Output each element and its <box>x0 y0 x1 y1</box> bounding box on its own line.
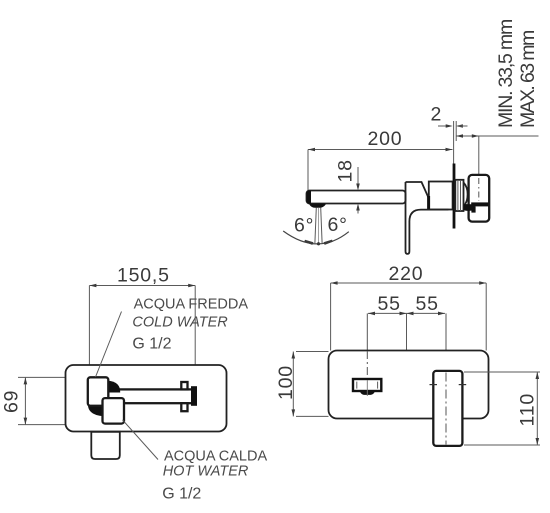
handle (front) <box>433 371 462 446</box>
dimension 220 <box>331 281 487 350</box>
svg-text:ACQUA CALDA: ACQUA CALDA <box>164 448 267 464</box>
bottom connection stub <box>91 432 120 459</box>
label cold water <box>132 297 248 353</box>
horizontal centerline across handle <box>430 384 438 386</box>
handle centerline <box>445 313 447 352</box>
leader line hot water <box>123 420 159 460</box>
faucet body (side) <box>406 182 453 210</box>
svg-text:150,5: 150,5 <box>117 265 170 287</box>
pipe bracket lower <box>181 403 187 411</box>
svg-text:18: 18 <box>335 159 357 182</box>
dimension 2 lines <box>438 121 468 164</box>
cartridge profile <box>464 183 468 205</box>
svg-text:55: 55 <box>416 293 439 315</box>
dimension 18 lines <box>356 167 360 214</box>
spout outlet lip <box>360 391 375 395</box>
svg-text:2: 2 <box>431 104 443 126</box>
spout (side) <box>307 191 406 204</box>
svg-text:HOT WATER: HOT WATER <box>163 464 249 480</box>
dimension 110 <box>464 372 540 445</box>
pipe end cap <box>191 386 197 406</box>
dimension 200 line <box>308 148 453 190</box>
svg-text:110: 110 <box>517 393 539 427</box>
spout centerline inside plate <box>366 351 368 379</box>
valve body behind wall <box>469 175 490 222</box>
dimension 100 <box>292 352 329 417</box>
label hot water <box>162 448 267 502</box>
dimension 55 55 <box>368 312 445 351</box>
wall plate (front) <box>329 351 489 419</box>
black casting below cold block <box>88 405 104 416</box>
leader line cold water <box>96 312 122 378</box>
hot water block <box>103 398 125 424</box>
arc arrowheads <box>304 240 313 245</box>
dimension 150,5 <box>89 284 195 399</box>
svg-text:55: 55 <box>378 293 401 315</box>
svg-text:220: 220 <box>389 263 424 285</box>
svg-text:G 1/2: G 1/2 <box>162 486 201 503</box>
svg-text:200: 200 <box>368 128 403 150</box>
dimension 69 lines <box>18 377 88 424</box>
lower step <box>471 206 475 212</box>
svg-text:MAX. 63 mm: MAX. 63 mm <box>517 29 539 128</box>
svg-text:COLD WATER: COLD WATER <box>132 314 228 330</box>
spout centerline <box>366 313 368 352</box>
svg-text:6°: 6° <box>294 215 314 237</box>
handle lever (side) <box>405 182 448 254</box>
pipe bracket upper <box>181 382 187 389</box>
aerator <box>310 204 326 208</box>
svg-text:6°: 6° <box>328 214 348 236</box>
MIN/MAX dimension line <box>456 134 539 176</box>
spray angle arc <box>283 231 349 244</box>
black blob between rings and body <box>464 204 475 211</box>
cold water block <box>88 377 109 406</box>
wall plate line <box>453 164 456 229</box>
spout centerline inner <box>366 380 368 396</box>
svg-text:ACQUA FREDDA: ACQUA FREDDA <box>134 297 249 313</box>
svg-text:MIN. 33,5 mm: MIN. 33,5 mm <box>495 18 517 128</box>
svg-text:G 1/2: G 1/2 <box>132 336 171 353</box>
centerline of valve <box>478 178 480 201</box>
spout outlet (front) <box>353 379 381 391</box>
mounting flange band <box>471 202 488 206</box>
trim rings <box>455 180 463 211</box>
black casting right of cold block <box>108 381 121 393</box>
supply pipe (top view) <box>108 389 195 403</box>
handle centerline <box>445 373 447 445</box>
svg-text:69: 69 <box>1 390 23 413</box>
water stream lines <box>315 208 322 246</box>
recessed box outline <box>66 365 227 432</box>
svg-text:100: 100 <box>275 365 297 400</box>
